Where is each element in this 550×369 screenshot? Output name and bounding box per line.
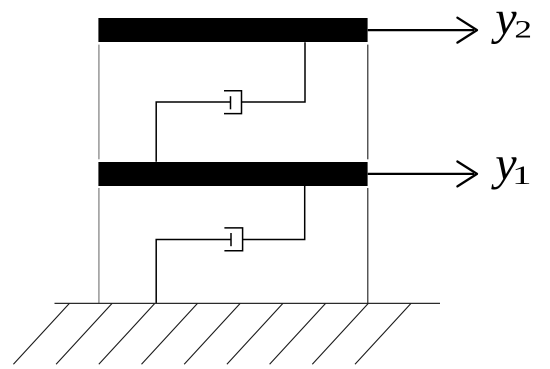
ground hatch 2 <box>56 303 112 364</box>
arrow y1 head <box>457 162 477 187</box>
ground hatch 1 <box>13 303 69 364</box>
ground hatch 4 <box>142 303 198 364</box>
ground hatch 5 <box>184 303 240 364</box>
arrow y2 head <box>457 18 477 43</box>
damper C1 piston <box>230 233 232 246</box>
ground hatch 9 <box>355 303 411 364</box>
damper C2 left leg wire <box>156 102 230 162</box>
left column (wall) upper segment <box>98 45 100 160</box>
damper C1 right leg wire <box>243 186 305 240</box>
damper C2 cylinder <box>224 91 242 114</box>
svg-text:1: 1 <box>512 162 531 190</box>
ground hatch 6 <box>227 303 283 364</box>
left column (wall) lower segment <box>98 188 100 303</box>
damper C1 cylinder <box>224 228 242 251</box>
ground line <box>55 302 441 304</box>
mass m2 (top floor bar) <box>98 18 367 42</box>
right column (wall) lower segment <box>367 188 369 303</box>
damper C1 left leg wire <box>156 240 231 304</box>
svg-text:y: y <box>490 0 517 45</box>
mass m1 (middle floor bar) <box>98 162 367 186</box>
damper C2 right leg wire <box>242 42 306 102</box>
damper C2 piston <box>230 96 232 109</box>
arrow y2 shaft <box>368 29 474 31</box>
ground hatch 8 <box>312 303 368 364</box>
right column (wall) upper segment <box>367 45 369 160</box>
ground hatch 3 <box>99 303 155 364</box>
ground hatch 7 <box>270 303 326 364</box>
svg-text:2: 2 <box>514 16 532 44</box>
arrow y1 shaft <box>368 173 474 175</box>
